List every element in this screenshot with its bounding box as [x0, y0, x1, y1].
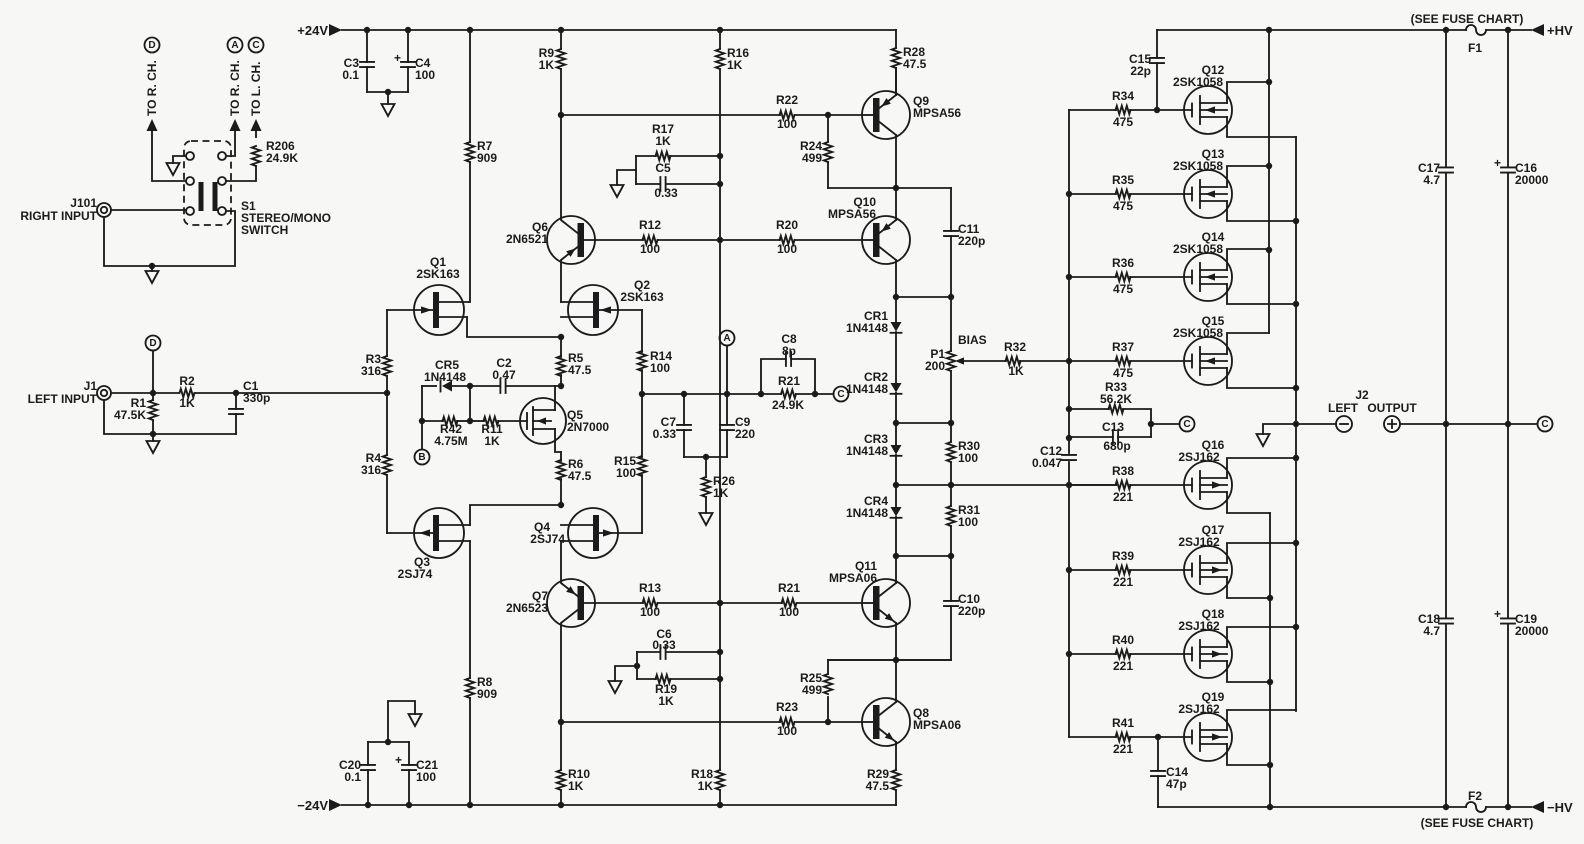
resistor R36 [1069, 276, 1116, 278]
svg-text:(SEE FUSE CHART): (SEE FUSE CHART) [1421, 816, 1534, 830]
junction [1266, 27, 1272, 33]
junction [364, 27, 370, 33]
resistor R37 [1069, 360, 1116, 362]
wire [895, 260, 897, 297]
junction [893, 657, 899, 663]
wire [1400, 423, 1537, 425]
junction [1293, 540, 1299, 546]
svg-text:909: 909 [477, 687, 497, 701]
transistor Q13 [1184, 170, 1232, 218]
transistor Q8 [862, 698, 910, 746]
junction [639, 391, 645, 397]
switch S1 pin [218, 177, 226, 185]
wire [467, 317, 561, 337]
svg-text:R21: R21 [778, 581, 800, 595]
capacitor C7 [683, 394, 685, 425]
wire [422, 385, 436, 387]
svg-text:475: 475 [1113, 199, 1133, 213]
svg-text:20000: 20000 [1515, 173, 1549, 187]
wire [1263, 424, 1296, 434]
svg-text:R23: R23 [776, 700, 798, 714]
resistor R22 [780, 111, 795, 119]
svg-text:4.75M: 4.75M [434, 434, 467, 448]
node C (bias) [1180, 417, 1195, 432]
svg-text:4.7: 4.7 [1423, 173, 1440, 187]
ground (R17 C5) [611, 185, 624, 197]
junction [634, 663, 640, 669]
svg-text:2SJ74: 2SJ74 [530, 532, 565, 546]
capacitor C20 [367, 742, 369, 765]
transistor Q1 [414, 285, 464, 335]
junction [1267, 679, 1273, 685]
svg-text:R34: R34 [1112, 89, 1134, 103]
transistor Q2 [568, 285, 618, 335]
svg-text:OUTPUT: OUTPUT [1367, 401, 1417, 415]
svg-text:1N4148: 1N4148 [846, 444, 888, 458]
svg-text:(SEE FUSE CHART): (SEE FUSE CHART) [1411, 12, 1524, 26]
resistor R12 [643, 236, 658, 244]
junction [1155, 734, 1161, 740]
svg-text:A: A [723, 333, 730, 344]
diode CR2 [891, 383, 902, 393]
svg-text:221: 221 [1113, 742, 1133, 756]
svg-text:+HV: +HV [1547, 23, 1573, 38]
junction [1266, 247, 1272, 253]
wire [895, 393, 897, 445]
transistor Q16 [1184, 461, 1232, 509]
wire -HV rail [1158, 806, 1466, 808]
junction [1267, 804, 1273, 810]
wire [104, 400, 236, 434]
svg-text:2SJ162: 2SJ162 [1178, 702, 1220, 716]
svg-text:2SK1058: 2SK1058 [1173, 159, 1223, 173]
junction [717, 237, 723, 243]
junction [1154, 107, 1160, 113]
junction [467, 802, 473, 808]
svg-text:1N4148: 1N4148 [424, 370, 466, 384]
junction [384, 390, 390, 396]
svg-text:−HV: −HV [1547, 800, 1573, 815]
junction [717, 600, 723, 606]
junction [1443, 27, 1449, 33]
node A (to R. CH.) [228, 38, 243, 53]
wire [388, 701, 415, 742]
resistor R30 [950, 423, 952, 442]
wire Q15 source [1227, 368, 1296, 388]
svg-text:475: 475 [1113, 366, 1133, 380]
svg-text:47.5: 47.5 [866, 779, 890, 793]
junction [717, 649, 723, 655]
junction [717, 27, 723, 33]
resistor R24 [827, 115, 829, 142]
svg-text:47.5: 47.5 [568, 363, 592, 377]
svg-text:330p: 330p [243, 391, 270, 405]
junction [1505, 421, 1511, 427]
svg-text:2SJ162: 2SJ162 [1178, 450, 1220, 464]
wire [635, 156, 637, 184]
wire [367, 91, 408, 93]
resistor R1 [152, 393, 154, 400]
wire [421, 386, 423, 450]
svg-text:BIAS: BIAS [958, 333, 987, 347]
svg-text:0.1: 0.1 [344, 770, 361, 784]
capacitor C19 [1507, 424, 1509, 618]
wire [173, 156, 186, 163]
capacitor C10 [950, 556, 952, 601]
svg-text:1K: 1K [713, 486, 729, 500]
resistor R20 [780, 236, 795, 244]
switch S1 body [184, 141, 231, 225]
junction [1066, 274, 1072, 280]
junction [1266, 163, 1272, 169]
svg-text:2N6523: 2N6523 [506, 601, 548, 615]
junction [385, 739, 391, 745]
svg-text:2SJ162: 2SJ162 [1178, 619, 1220, 633]
capacitor C16 [1507, 30, 1509, 167]
wire Q13 source [1227, 201, 1296, 221]
wire [230, 119, 241, 131]
wire output node [1296, 423, 1336, 425]
wire Q19 drain [1227, 744, 1270, 765]
svg-text:0.1: 0.1 [342, 68, 359, 82]
wire gate bus upper [1068, 110, 1070, 453]
svg-text:−24V: −24V [297, 798, 328, 813]
svg-text:0.47: 0.47 [492, 368, 516, 382]
wire [615, 666, 637, 681]
svg-text:1K: 1K [539, 58, 555, 72]
ground (C6 R19) [609, 681, 622, 693]
junction [1293, 385, 1299, 391]
svg-text:221: 221 [1113, 490, 1133, 504]
capacitor C9 [726, 394, 728, 425]
svg-text:+: + [395, 753, 402, 767]
wire [1151, 423, 1180, 425]
switch S1 pin [218, 207, 226, 215]
svg-text:C: C [1541, 419, 1548, 430]
junction [948, 482, 954, 488]
resistor R32 [964, 360, 1006, 362]
svg-text:20000: 20000 [1515, 624, 1549, 638]
junction [724, 391, 730, 397]
wire gate bus lower [1068, 462, 1070, 737]
capacitor C17 [1445, 30, 1447, 167]
svg-text:100: 100 [640, 605, 660, 619]
node D (input) [146, 336, 161, 351]
resistor R3 [386, 310, 388, 356]
junction [948, 553, 954, 559]
svg-text:R20: R20 [776, 218, 798, 232]
resistor R17 [636, 155, 656, 157]
junction [365, 802, 371, 808]
junction [1066, 482, 1072, 488]
junction [467, 383, 473, 389]
junction [1066, 567, 1072, 573]
svg-text:499: 499 [802, 683, 822, 697]
wire [895, 135, 897, 220]
switch S1 pole bars [199, 182, 204, 211]
svg-text:C: C [1183, 419, 1190, 430]
ground (R26) [700, 513, 713, 525]
svg-text:56.2K: 56.2K [1100, 392, 1132, 406]
ground (output) [1257, 434, 1270, 446]
wire [104, 211, 235, 266]
diode CR1 [895, 297, 897, 322]
junction [812, 391, 818, 397]
junction [467, 27, 473, 33]
junction [717, 802, 723, 808]
svg-text:R39: R39 [1112, 549, 1134, 563]
transistor Q4 [568, 508, 618, 558]
resistor R41 [1069, 736, 1116, 738]
svg-text:+: + [1494, 156, 1501, 170]
junction [717, 676, 723, 682]
junction [1293, 301, 1299, 307]
svg-text:B: B [418, 452, 425, 463]
resistor R38 [1069, 484, 1116, 486]
resistor R7 [469, 30, 471, 142]
wire Q17 drain [1227, 577, 1270, 598]
switch S1 pin [186, 207, 194, 215]
junction [893, 294, 899, 300]
wire [251, 119, 262, 131]
wire Q14 drain [1227, 249, 1269, 270]
svg-text:47.5: 47.5 [903, 57, 927, 71]
svg-text:200: 200 [925, 359, 945, 373]
svg-text:LEFT INPUT: LEFT INPUT [28, 392, 98, 406]
svg-text:8p: 8p [782, 344, 796, 358]
svg-text:TO R. CH.: TO R. CH. [145, 60, 159, 116]
svg-text:R36: R36 [1112, 256, 1134, 270]
resistor R15 [641, 394, 643, 457]
junction [825, 719, 831, 725]
junction [825, 112, 831, 118]
wire [896, 422, 951, 424]
svg-text:100: 100 [415, 68, 435, 82]
connector J2 plus [1384, 416, 1400, 432]
wire [795, 721, 863, 723]
junction [1267, 762, 1273, 768]
wire Q16 source [1227, 458, 1296, 478]
svg-text:220: 220 [735, 427, 755, 441]
wire [561, 114, 780, 116]
diode CR5 [440, 381, 442, 392]
wire [726, 346, 728, 395]
transistor Q12 [1184, 86, 1232, 134]
svg-text:2SK1058: 2SK1058 [1173, 326, 1223, 340]
capacitor C2 [470, 385, 500, 387]
capacitor C3 [366, 30, 368, 62]
svg-text:SWITCH: SWITCH [241, 223, 288, 237]
resistor R5 [560, 337, 562, 357]
resistor R34 [1069, 109, 1116, 111]
svg-text:2SJ74: 2SJ74 [398, 567, 433, 581]
wire +24V rail [329, 24, 342, 36]
connector J101 [97, 203, 111, 217]
wire [147, 119, 158, 131]
svg-text:C13: C13 [1102, 420, 1124, 434]
switch S1 pin [186, 177, 194, 185]
svg-text:C5: C5 [655, 161, 671, 175]
svg-text:24.9K: 24.9K [772, 398, 804, 412]
svg-text:680p: 680p [1103, 439, 1130, 453]
node C (output) [1538, 417, 1553, 432]
svg-text:2SK163: 2SK163 [416, 267, 460, 281]
switch S1 pin [186, 152, 194, 160]
svg-text:100: 100 [640, 242, 660, 256]
resistor R21 (driver) [782, 599, 797, 607]
node B [415, 450, 430, 465]
connector J1 [97, 386, 111, 400]
svg-text:1K: 1K [698, 779, 714, 793]
junction [150, 431, 156, 437]
capacitor C6 [637, 651, 660, 653]
svg-text:F2: F2 [1468, 789, 1482, 803]
wire [828, 187, 951, 189]
svg-text:100: 100 [958, 515, 978, 529]
resistor R23 [780, 718, 795, 726]
junction [150, 390, 156, 396]
wire [684, 456, 727, 458]
svg-text:2SK1058: 2SK1058 [1173, 242, 1223, 256]
transistor Q15 [1184, 337, 1232, 385]
wire [152, 434, 154, 441]
resistor R31 [950, 485, 952, 506]
svg-text:R41: R41 [1112, 716, 1134, 730]
junction [1505, 27, 1511, 33]
svg-text:909: 909 [477, 151, 497, 165]
switch S1 pin [218, 152, 226, 160]
junction [419, 418, 425, 424]
junction [405, 27, 411, 33]
svg-text:R32: R32 [1004, 340, 1026, 354]
svg-text:J101: J101 [70, 196, 97, 210]
junction [1443, 421, 1449, 427]
junction [1293, 218, 1299, 224]
capacitor C4 [407, 30, 409, 62]
junction [149, 263, 155, 269]
wire Q15 drain [1227, 333, 1269, 354]
wire [895, 623, 897, 702]
wire [895, 68, 897, 95]
resistor R35 [1069, 193, 1116, 195]
ground (J101) [146, 271, 159, 283]
svg-text:2N6521: 2N6521 [506, 232, 548, 246]
svg-text:100: 100 [416, 770, 436, 784]
svg-text:D: D [149, 338, 156, 349]
resistor R25 [827, 697, 829, 722]
junction [467, 418, 473, 424]
svg-text:4.7: 4.7 [1423, 624, 1440, 638]
wire [1486, 806, 1531, 808]
ground (input) [147, 441, 160, 453]
wire [895, 517, 897, 556]
svg-text:475: 475 [1113, 282, 1133, 296]
transistor Q11 [862, 579, 910, 627]
transistor Q14 [1184, 253, 1232, 301]
wire Q12 drain [1227, 82, 1269, 103]
junction [893, 482, 899, 488]
resistor R26 [705, 457, 707, 477]
svg-text:R12: R12 [639, 218, 661, 232]
resistor R8 [469, 541, 471, 678]
svg-text:MPSA56: MPSA56 [913, 106, 961, 120]
diode CR4 [891, 507, 902, 517]
resistor R2 [180, 389, 195, 397]
svg-text:2N7000: 2N7000 [567, 420, 609, 434]
transistor Q7 [547, 579, 595, 627]
transistor Q17 [1184, 546, 1232, 594]
wire [1486, 29, 1531, 31]
wire node-A line [642, 393, 761, 395]
junction [558, 502, 564, 508]
capacitor C12 [1062, 455, 1076, 460]
svg-text:1K: 1K [658, 694, 674, 708]
svg-text:LEFT: LEFT [1328, 401, 1359, 415]
diode CR3 [891, 445, 902, 455]
resistor R29 [895, 742, 897, 770]
junction [558, 27, 564, 33]
wire [152, 351, 154, 394]
svg-text:2SK1058: 2SK1058 [1173, 75, 1223, 89]
resistor R18 [716, 770, 724, 790]
wire Q12 source [1227, 117, 1296, 137]
ground (C3 C4) [382, 104, 395, 116]
svg-text:316: 316 [361, 463, 381, 477]
wire [617, 170, 636, 185]
svg-text:100: 100 [650, 361, 670, 375]
wire Q18 source [1227, 627, 1296, 647]
svg-text:+: + [394, 51, 401, 65]
svg-text:0.33: 0.33 [652, 638, 676, 652]
capacitor C11 [950, 188, 952, 231]
svg-text:1N4148: 1N4148 [846, 321, 888, 335]
svg-text:R37: R37 [1112, 340, 1134, 354]
wire [470, 505, 561, 525]
svg-text:0.33: 0.33 [653, 427, 677, 441]
svg-text:100: 100 [777, 724, 797, 738]
junction [703, 454, 709, 460]
wire [368, 741, 409, 743]
svg-text:MPSA06: MPSA06 [913, 718, 961, 732]
svg-text:220p: 220p [958, 604, 985, 618]
capacitor C15 [1156, 30, 1158, 58]
svg-text:100: 100 [777, 117, 797, 131]
svg-text:J2: J2 [1355, 388, 1369, 402]
svg-text:1K: 1K [655, 134, 671, 148]
wire [797, 602, 863, 604]
resistor R14 [641, 310, 643, 352]
node C (to L. CH.) [249, 38, 264, 53]
junction [717, 181, 723, 187]
svg-text:100: 100 [777, 242, 797, 256]
junction [1267, 595, 1273, 601]
transistor Q5 [520, 398, 566, 444]
wire -24V rail [329, 799, 342, 811]
svg-text:F1: F1 [1468, 41, 1482, 55]
wire [111, 209, 186, 211]
wire [195, 392, 388, 394]
wire [815, 393, 834, 395]
wire drain bus (top) [1268, 30, 1270, 333]
transistor Q9 [862, 91, 910, 139]
svg-text:0.33: 0.33 [654, 186, 678, 200]
svg-text:47.5: 47.5 [568, 469, 592, 483]
wire [795, 114, 863, 116]
svg-text:0.047: 0.047 [1032, 456, 1062, 470]
junction [558, 802, 564, 808]
wire [469, 386, 471, 421]
svg-text:C: C [837, 389, 844, 400]
